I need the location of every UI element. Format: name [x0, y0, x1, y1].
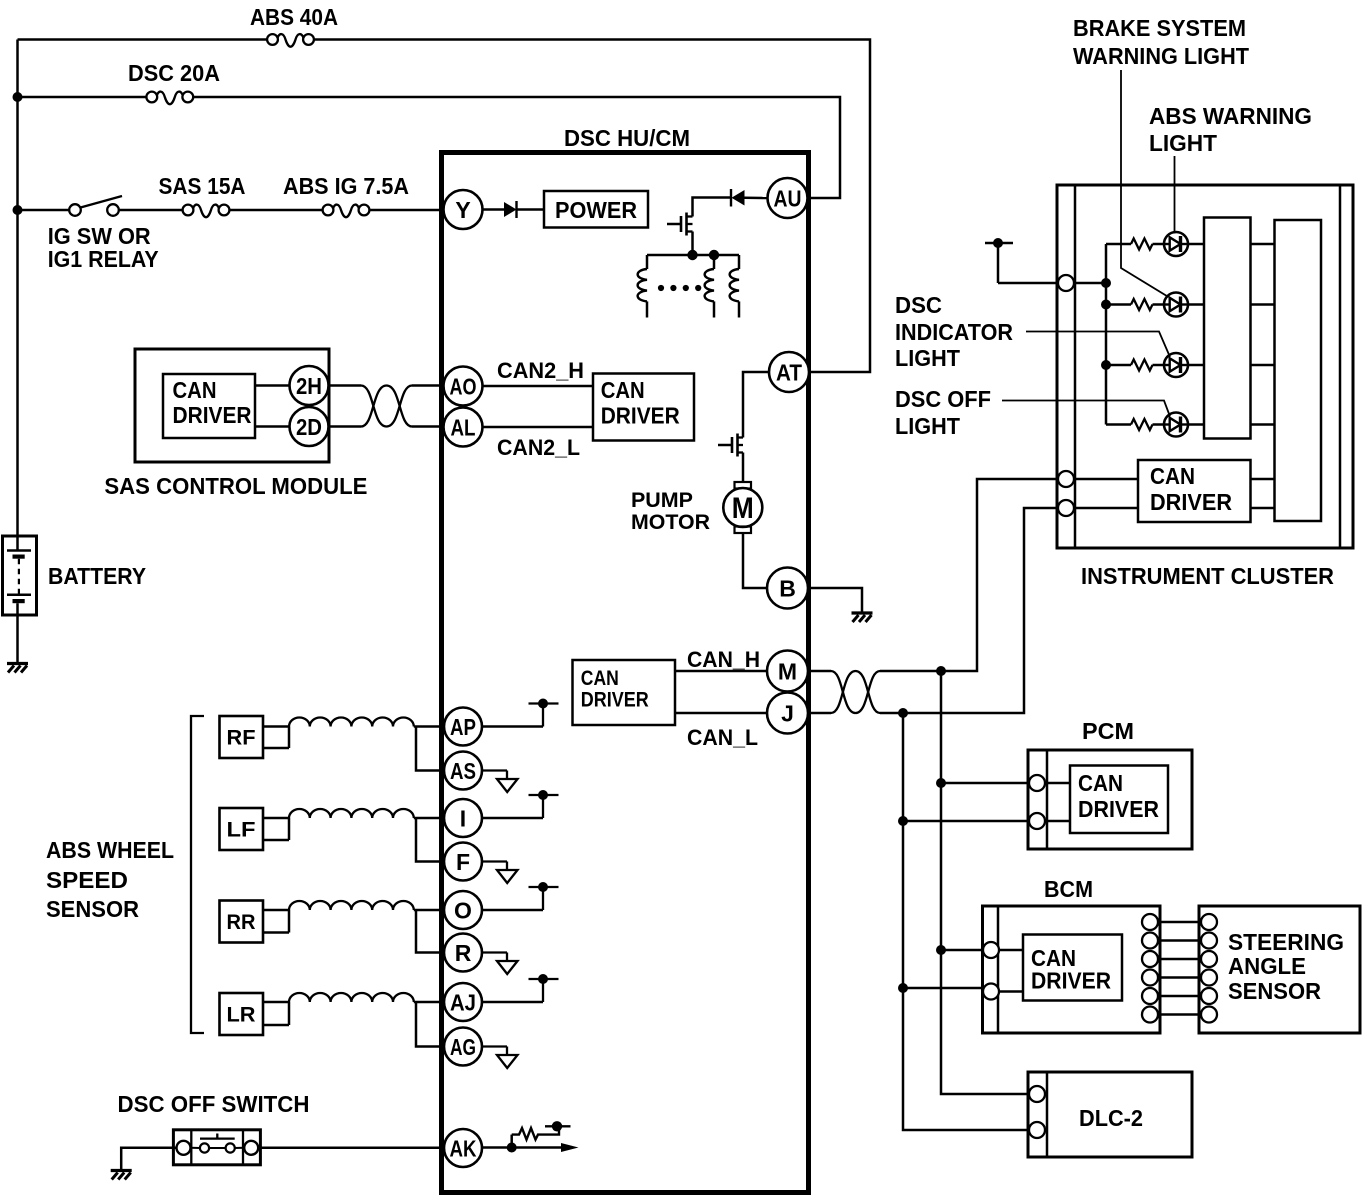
ground DSC OFF switch [111, 1171, 132, 1180]
svg-text:O: O [454, 897, 472, 923]
solenoid coil L1 [638, 255, 647, 318]
resistor R3 (DSC indicator) [1131, 360, 1153, 371]
ground battery [7, 664, 28, 673]
cable coil RR [289, 901, 414, 910]
wire twist to AO [412, 384, 444, 387]
junction coil bus A [687, 250, 697, 260]
switch DSC OFF [173, 1130, 260, 1165]
module DLC-2 [1028, 1072, 1192, 1157]
svg-text:ABS WHEEL: ABS WHEEL [46, 837, 174, 863]
terminal 2H [290, 366, 329, 405]
terminal F [444, 843, 482, 881]
junction CAN_L drop [898, 708, 908, 718]
wire AJ pull-up [482, 1001, 543, 1004]
wire AT to Q2 drain [743, 372, 769, 438]
cable coil LF [289, 809, 414, 818]
wire driver to M (CAN_H) [675, 670, 767, 673]
svg-text:DSC HU/CM: DSC HU/CM [564, 125, 690, 151]
wire switch to AK [258, 1147, 444, 1150]
svg-text:CAN2_L: CAN2_L [497, 435, 580, 460]
wire SAS driver to 2D [255, 425, 290, 428]
power stub I [529, 790, 559, 818]
wire LR leads [263, 1002, 289, 1025]
svg-text:SENSOR: SENSOR [46, 896, 139, 922]
svg-text:WARNING LIGHT: WARNING LIGHT [1073, 43, 1249, 69]
terminal AO [444, 367, 483, 406]
resistor R2 (ABS warning) [1131, 299, 1153, 310]
wire pin to driver (BCM H) [998, 949, 1023, 952]
connector pin steering sensor 5 [1201, 988, 1217, 1004]
svg-text:AP: AP [450, 714, 476, 740]
module STEERING ANGLE SENSOR [1199, 906, 1360, 1033]
solenoid coil L3 [730, 255, 739, 318]
junction CAN_H/PCM [936, 778, 946, 788]
LED brake warning light [1164, 232, 1188, 256]
wire valve coil bus [647, 254, 739, 257]
svg-text:BCM: BCM [1044, 876, 1093, 902]
wire pin to driver (PCM L) [1045, 820, 1071, 823]
wire drop to AG [416, 1002, 444, 1047]
svg-text:AJ: AJ [450, 989, 476, 1015]
svg-text:AT: AT [776, 359, 802, 385]
wire SAS fuse to ABS IG fuse [229, 209, 322, 212]
connector pin steering sensor 1 [1201, 914, 1217, 930]
wire BCM to steering sensor 3 [1157, 958, 1201, 961]
svg-text:ANGLE: ANGLE [1228, 953, 1306, 979]
wire CAN_H vertical [941, 671, 1030, 1094]
svg-text:DRIVER: DRIVER [581, 689, 649, 712]
wire SAS driver to 2H [255, 384, 290, 387]
svg-text:POWER: POWER [555, 197, 637, 223]
resistor R4 (DSC off) [1131, 419, 1153, 430]
block CAN DRIVER (DSC CAN2) [593, 374, 694, 441]
svg-text:DRIVER: DRIVER [173, 402, 252, 428]
connector strip (PCM) [1046, 750, 1049, 849]
connector pin BCM-SAS 4 [1142, 970, 1158, 986]
wire Y to diode [483, 208, 505, 211]
wire CAN_H run [880, 479, 1059, 671]
power stub AJ [529, 974, 559, 1002]
terminal M [767, 651, 808, 692]
svg-text:F: F [456, 849, 470, 875]
svg-text:DRIVER: DRIVER [1078, 796, 1159, 822]
connector pin cluster CAN_L [1058, 500, 1074, 516]
wire AP pull-up [482, 725, 543, 728]
connector pin BCM-SAS 3 [1142, 951, 1158, 967]
module SAS CONTROL MODULE [135, 349, 329, 462]
wire driver to panel2 row a [1251, 478, 1275, 481]
twisted pair CAN2 [361, 386, 412, 427]
arrow AK output [561, 1143, 579, 1152]
ground B [852, 613, 873, 622]
resistor R5 (AK) [512, 1126, 559, 1139]
wire left battery rail [16, 40, 19, 538]
svg-text:AG: AG [450, 1034, 476, 1060]
leader DSC off light [1002, 401, 1170, 417]
block CAN DRIVER (DSC CAN) [573, 660, 676, 725]
svg-text:DRIVER: DRIVER [1031, 968, 1111, 994]
svg-text:RR: RR [227, 911, 256, 934]
svg-text:I: I [460, 805, 466, 831]
module BCM [983, 906, 1161, 1033]
transistor Q2 (pump motor FET) [718, 434, 743, 457]
wire panel link row 3 [1251, 364, 1275, 367]
svg-text:M: M [732, 492, 754, 525]
wire LF leads [263, 818, 289, 840]
connector pin steering sensor 3 [1201, 951, 1217, 967]
battery [3, 536, 37, 615]
svg-text:LIGHT: LIGHT [1149, 130, 1217, 156]
junction coil bus B [709, 250, 719, 260]
svg-text:CAN_H: CAN_H [687, 647, 760, 672]
terminal J [767, 693, 808, 734]
svg-text:PCM: PCM [1082, 718, 1134, 744]
sensor LF wheel speed [220, 808, 264, 850]
wire AL to CAN driver (CAN2_L) [483, 426, 594, 429]
terminal AJ [444, 983, 482, 1021]
junction CAN_L/BCM [898, 983, 908, 993]
wire coil to I [414, 817, 444, 820]
wire twist to AL [412, 425, 444, 428]
terminal AS [444, 752, 482, 790]
svg-text:LIGHT: LIGHT [895, 345, 960, 371]
block display panel 2 [1275, 220, 1322, 521]
junction bus row2 [1101, 300, 1111, 310]
terminal Y [444, 190, 483, 229]
wire panel link row 2 [1251, 303, 1275, 306]
terminal AP [444, 708, 482, 746]
svg-text:CAN: CAN [581, 667, 619, 690]
wire 2D to twist [329, 425, 362, 428]
cable coil LR [289, 993, 414, 1002]
wire AO to CAN driver (CAN2_H) [483, 385, 594, 388]
wire 2H to twist [329, 384, 362, 387]
wire diode D2 to AU [745, 197, 768, 200]
svg-text:Y: Y [455, 197, 470, 223]
svg-text:DSC 20A: DSC 20A [128, 60, 220, 86]
connector pin BCM CAN_H [983, 942, 999, 958]
shield drain R [482, 953, 518, 975]
svg-text:R: R [455, 940, 472, 966]
connector pin PCM CAN_H [1029, 775, 1045, 791]
junction left rail / IG feed [13, 205, 23, 215]
connector pin steering sensor 2 [1201, 933, 1217, 949]
resistor R1 (brake warning) [1131, 239, 1153, 250]
terminal O [444, 891, 482, 929]
wire CAN_L to BCM [903, 987, 984, 990]
fuse SAS 15A [183, 205, 230, 218]
svg-text:DSC: DSC [895, 292, 942, 318]
diode D2 (to AU) [731, 189, 745, 207]
svg-text:LR: LR [227, 1004, 256, 1027]
block CAN DRIVER (SAS) [163, 374, 255, 438]
connector pin BCM-SAS 2 [1142, 933, 1158, 949]
leader brake system warning light [1121, 70, 1169, 297]
switch IG SW / IG1 relay [69, 196, 122, 216]
svg-text:ABS IG 7.5A: ABS IG 7.5A [283, 173, 409, 199]
junction AK [507, 1143, 517, 1153]
shield drain F [482, 862, 518, 884]
svg-text:AS: AS [450, 758, 476, 784]
svg-text:DSC OFF: DSC OFF [895, 386, 991, 412]
twisted pair CAN bus [831, 671, 880, 713]
svg-text:STEERING: STEERING [1228, 929, 1344, 955]
fuse ABS 40A [267, 34, 314, 47]
module DSC HU/CM [442, 153, 809, 1193]
svg-text:ABS 40A: ABS 40A [250, 4, 338, 30]
wire coil to O [414, 909, 444, 912]
wire switch to ground [121, 1148, 176, 1171]
svg-text:DLC-2: DLC-2 [1079, 1105, 1143, 1131]
junction CAN_H drop [936, 666, 946, 676]
connector strip (DLC-2) [1046, 1072, 1049, 1157]
block display panel 1 [1204, 218, 1251, 439]
wire DSC 20A to AU [193, 97, 840, 198]
wire RF leads [263, 727, 289, 749]
ellipsis between coils [658, 285, 701, 291]
svg-text:DSC OFF SWITCH: DSC OFF SWITCH [118, 1091, 310, 1117]
transistor Q1 (valve relay FET) [667, 213, 693, 236]
block POWER [544, 191, 648, 228]
svg-text:INDICATOR: INDICATOR [895, 319, 1013, 345]
wire lamp supply bus [1105, 244, 1108, 425]
wire pin to driver CAN_L [1074, 507, 1139, 510]
svg-text:SAS CONTROL MODULE: SAS CONTROL MODULE [104, 473, 367, 499]
module INSTRUMENT CLUSTER [1057, 185, 1353, 548]
wire coil to AP [414, 725, 444, 728]
svg-text:BATTERY: BATTERY [48, 563, 146, 589]
wire pin to driver (PCM H) [1045, 782, 1071, 785]
wire driver to panel2 row b [1251, 507, 1275, 510]
fuse ABS IG 7.5A [323, 205, 370, 218]
svg-text:DRIVER: DRIVER [1150, 489, 1232, 515]
svg-text:2D: 2D [296, 414, 322, 440]
terminal B [767, 568, 808, 609]
svg-text:AU: AU [774, 185, 802, 211]
shield drain AS [482, 771, 518, 793]
wire pin to bus [1074, 282, 1107, 285]
wire ABS IG fuse to terminal Y [370, 209, 443, 212]
wire DSC 20A feed [18, 96, 147, 99]
connector pin BCM-SAS 6 [1142, 1007, 1158, 1023]
wire Q1 source to valve coil bus [691, 232, 694, 256]
wire M to twist [808, 670, 831, 673]
motor M1 pump [723, 482, 762, 533]
terminal AL [444, 408, 483, 447]
connector pin steering sensor 6 [1201, 1007, 1217, 1023]
wire motor to B [743, 533, 767, 588]
terminal 2D [290, 407, 329, 446]
wire switch to SAS fuse [119, 209, 183, 212]
bracket wheel sensors [191, 716, 204, 1033]
svg-text:SPEED: SPEED [46, 867, 128, 893]
wire I pull-up [482, 817, 543, 820]
svg-text:B: B [779, 575, 796, 601]
svg-text:J: J [781, 700, 794, 726]
sensor RR wheel speed [220, 901, 264, 943]
LED DSC indicator light [1164, 353, 1188, 377]
junction bus row3 [1101, 360, 1111, 370]
wire J to twist [808, 712, 831, 715]
block CAN DRIVER (PCM) [1070, 766, 1168, 834]
connector strip (BCM) [997, 906, 1000, 1033]
svg-text:LF: LF [227, 819, 256, 842]
wire ABS 40A to AT [314, 40, 870, 373]
svg-text:BRAKE SYSTEM: BRAKE SYSTEM [1073, 15, 1246, 41]
wire coil to AJ [414, 1001, 444, 1004]
svg-text:INSTRUMENT CLUSTER: INSTRUMENT CLUSTER [1081, 563, 1334, 589]
terminal I [444, 799, 482, 837]
terminal AG [444, 1028, 482, 1066]
wire BCM to steering sensor 1 [1157, 921, 1201, 924]
block CAN DRIVER (BCM) [1023, 935, 1122, 1001]
connector pin cluster power [1058, 275, 1074, 291]
wire Q2 source to motor [742, 453, 745, 483]
power stub AK [545, 1121, 571, 1131]
wire BCM to steering sensor 2 [1157, 939, 1201, 942]
wire O pull-up [482, 909, 543, 912]
svg-text:SAS 15A: SAS 15A [159, 173, 246, 199]
wire pin to driver CAN_H [1074, 478, 1139, 481]
junction bus/connector [1101, 278, 1111, 288]
terminal AK [444, 1129, 482, 1167]
solenoid coil L2 [705, 255, 714, 318]
connector pin BCM CAN_L [983, 984, 999, 1000]
svg-text:CAN: CAN [601, 377, 645, 403]
power stub AP [529, 699, 559, 727]
leader DSC indicator light [1026, 332, 1170, 358]
wire drop to R [416, 910, 444, 953]
junction CAN_L/PCM [898, 816, 908, 826]
leader ABS warning light [1174, 156, 1176, 234]
wire BCM to steering sensor 5 [1157, 995, 1201, 998]
terminal AT [769, 352, 809, 392]
connector pin DLC CAN_L [1029, 1122, 1045, 1138]
LED ABS warning light [1164, 293, 1188, 317]
wire CAN_H to PCM [941, 782, 1030, 785]
svg-text:CAN: CAN [1078, 770, 1123, 796]
wire diode to POWER [517, 208, 545, 211]
wire lamp row 1 [1106, 243, 1131, 246]
connector pin cluster CAN_H [1058, 471, 1074, 487]
wire B to ground [808, 588, 862, 613]
connector pin DLC CAN_H [1029, 1086, 1045, 1102]
svg-text:SENSOR: SENSOR [1228, 978, 1321, 1004]
svg-text:CAN: CAN [1150, 463, 1195, 489]
connector strip left (cluster) [1074, 185, 1077, 548]
wire AK pull-up network [482, 1135, 563, 1148]
LED DSC off light [1164, 413, 1188, 437]
svg-text:CAN2_H: CAN2_H [497, 358, 584, 383]
svg-text:PUMP: PUMP [631, 489, 693, 512]
wire CAN_L to PCM [903, 820, 1030, 823]
wire RR leads [263, 910, 289, 933]
wire BCM to steering sensor 4 [1157, 976, 1201, 979]
connector pin steering sensor 4 [1201, 970, 1217, 986]
svg-text:CAN: CAN [173, 377, 217, 403]
svg-text:AL: AL [451, 414, 476, 440]
svg-text:DRIVER: DRIVER [601, 403, 680, 429]
wire BCM to steering sensor 6 [1157, 1013, 1201, 1016]
wire driver to J (CAN_L) [675, 712, 767, 715]
wire panel link row 4 [1251, 423, 1275, 426]
block CAN DRIVER (cluster) [1138, 460, 1251, 522]
wire panel link row 1 [1251, 243, 1275, 246]
svg-text:AK: AK [450, 1135, 477, 1161]
connector strip right (cluster) [1339, 185, 1342, 548]
wire lamp row 4 [1106, 423, 1131, 426]
cable coil RF [289, 718, 414, 727]
svg-text:AO: AO [450, 373, 477, 399]
wire CAN_L run [880, 508, 1059, 713]
svg-text:RF: RF [227, 727, 256, 750]
sensor LR wheel speed [220, 993, 264, 1035]
shield drain AG [482, 1047, 518, 1069]
junction CAN_H/BCM [936, 945, 946, 955]
wire drop to AS [416, 727, 444, 771]
terminal AU [768, 178, 808, 218]
wire ABS 40A feed [18, 38, 268, 41]
wire battery to ground [16, 614, 19, 664]
terminal R [444, 934, 482, 972]
wire CAN_H to BCM [941, 949, 984, 952]
svg-text:ABS WARNING: ABS WARNING [1149, 103, 1312, 129]
fuse DSC 20A [146, 92, 193, 105]
wire lamp row 3 [1106, 364, 1131, 367]
connector pin PCM CAN_L [1029, 813, 1045, 829]
wire drop to F [416, 818, 444, 862]
svg-text:CAN_L: CAN_L [687, 725, 758, 750]
wire Q1 drain to diode D2 [693, 198, 731, 217]
junction power stub [993, 238, 1003, 248]
svg-text:2H: 2H [296, 373, 322, 399]
svg-text:LIGHT: LIGHT [895, 413, 960, 439]
wire pin to driver (BCM L) [998, 990, 1023, 993]
wire IG feed [18, 209, 70, 212]
wire lamp row 2 [1106, 303, 1131, 306]
svg-text:IG1 RELAY: IG1 RELAY [48, 246, 159, 272]
power stub O [529, 882, 559, 910]
wire CAN_L vertical [903, 713, 1030, 1130]
connector pin BCM-SAS 5 [1142, 988, 1158, 1004]
svg-text:MOTOR: MOTOR [631, 511, 710, 534]
power stub to cluster [985, 243, 1059, 283]
diode D1 (power) [504, 201, 517, 218]
junction left rail / DSC 20A [13, 92, 23, 102]
sensor RF wheel speed [220, 716, 264, 758]
module PCM [1028, 750, 1192, 849]
svg-text:M: M [778, 658, 797, 684]
connector pin BCM-SAS 1 [1142, 914, 1158, 930]
